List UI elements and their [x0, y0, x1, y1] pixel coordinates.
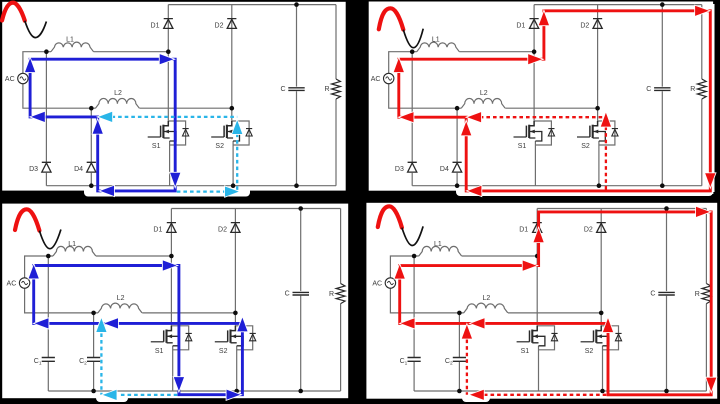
AC source [19, 278, 29, 288]
node AC-L1 junction [46, 254, 51, 259]
AC waveform icon negative half [402, 226, 423, 245]
wire cyan path halo 3 [177, 189, 225, 194]
arrow red right on AC top segment [528, 54, 542, 64]
MOSFET S2 channel bar [592, 125, 594, 138]
wire node B to S2 drain [600, 313, 602, 326]
node AC-L2 junction [89, 106, 94, 111]
svg-text:S1: S1 [155, 348, 164, 355]
arrow red left into AC corner [401, 318, 415, 328]
node S2 bottom junction [597, 183, 602, 188]
diode D2 branch wire [600, 209, 602, 313]
node B (L2/D2/S2) [595, 106, 600, 111]
MOSFET S1 body arrow [164, 130, 169, 134]
MOSFET S1 gate bar [525, 126, 527, 137]
wire S1 source to bottom rail [169, 141, 171, 186]
wire red current path loop (L1-D1-load, return via S2) [400, 212, 712, 395]
wire red dashed halo 2 [484, 392, 608, 397]
MOSFET S1 source tap [529, 132, 542, 142]
MOSFET S2 gate bar [589, 126, 591, 137]
capacitor C branch wires [296, 5, 298, 186]
wire right rail / load branch [335, 5, 337, 186]
svg-text:D3: D3 [29, 166, 38, 173]
wire L1 rail segment [46, 51, 168, 53]
wire node A to S1 drain [167, 52, 169, 121]
wire L1 rail segment [414, 255, 537, 257]
svg-text:D4: D4 [74, 166, 83, 173]
diode D1 [167, 223, 176, 233]
MOSFET S2 source tap [593, 132, 606, 142]
arrow blue right on top segment [160, 54, 174, 64]
svg-text:L1: L1 [68, 241, 76, 248]
inductor L2 [461, 98, 505, 108]
arrow blue left on bottom segment [100, 186, 114, 196]
MOSFET S2 body diode symbol [612, 129, 618, 136]
diode D4 branch wire [456, 108, 458, 186]
wire halo (top-right right edge) [706, 4, 715, 192]
arrow red up at AC [394, 58, 404, 72]
panel top-right background [369, 2, 713, 191]
MOSFET S2 gate lead [581, 341, 594, 343]
svg-text:L1: L1 [66, 37, 74, 44]
wire cyan dashed path horizontal (S2 to L2 node) [112, 116, 238, 118]
svg-text:L2: L2 [483, 295, 491, 302]
svg-text:AC: AC [371, 76, 381, 83]
wire cyan dashed path vertical (through S2) [236, 134, 238, 192]
node D4 bottom junction [455, 183, 460, 188]
arrow red dashed-head left at D4 node [467, 112, 481, 122]
MOSFET S2 body arrow [228, 130, 233, 134]
node C2 bottom junction [91, 389, 96, 394]
wire L2 rail segment [461, 107, 597, 109]
MOSFET S1 drain lead [529, 121, 534, 126]
arrow blue up at AC [25, 58, 35, 72]
inductor L1 [53, 246, 96, 256]
arrow blue up through S2 [237, 318, 247, 332]
capacitor C plates [654, 88, 670, 91]
arrow red up through D1 [534, 228, 544, 242]
wire S2 source to bottom rail [236, 346, 238, 391]
wire node B to S2 drain [597, 108, 599, 121]
inductor L2 [464, 303, 508, 313]
svg-text:AC: AC [5, 76, 15, 83]
MOSFET S1 gate bar [163, 330, 165, 341]
wire L1 rail segment [412, 51, 534, 53]
wire bottom rail [46, 185, 336, 187]
svg-text:C: C [285, 291, 290, 298]
arrow red up through D4 [461, 122, 471, 136]
arrow blue right on top segment [163, 260, 177, 270]
capacitor C1 plates [408, 358, 421, 362]
MOSFET S1 body diode symbol [551, 333, 557, 340]
MOSFET S2 gate lead [211, 136, 224, 138]
diode D3 [42, 162, 51, 172]
resistor R zigzag [702, 284, 711, 304]
arrow red right on top rail [696, 207, 710, 217]
arrow blue down through S1 [170, 173, 180, 187]
MOSFET S2 body arrow [231, 334, 236, 338]
wire blue current path loop (AC-L1-S1 return via L2) [30, 59, 175, 191]
wire right rail / load branch [701, 5, 703, 186]
arrow red dashed-head left on bottom [470, 390, 484, 400]
MOSFET S2 source tap [231, 336, 244, 346]
MOSFET S2 channel bar [226, 125, 228, 138]
arrow cyan up at C2 branch [96, 318, 106, 332]
wire S2 source to bottom rail [598, 141, 600, 186]
wire S1 source to bottom rail [172, 346, 174, 391]
diode D1 [164, 19, 173, 29]
capacitor C1 branch wires [47, 256, 49, 391]
capacitor C plates [658, 292, 675, 295]
inductor L2 [96, 98, 140, 108]
wire L1 rail segment [48, 255, 171, 257]
MOSFET S1 gate bar [529, 330, 531, 341]
AC waveform icon positive half (red) [15, 209, 39, 230]
AC waveform icon negative half [403, 29, 423, 48]
MOSFET S1 channel bar [528, 125, 530, 138]
capacitor C2 branch wires [458, 313, 460, 391]
node A (L1/D1/S1) [169, 254, 174, 259]
MOSFET S1 drain lead [163, 121, 168, 126]
wire S2 source to bottom rail [232, 141, 234, 186]
wire halo (top-left bottom edge) [84, 185, 250, 197]
arrow cyan up through S2 [232, 120, 242, 134]
node C bottom junction [298, 389, 303, 394]
wire node A to S1 drain [533, 52, 535, 121]
MOSFET S1 source tap [167, 336, 180, 346]
MOSFET S2 gate bar [593, 330, 595, 341]
MOSFET S2 body diode symbol [246, 129, 252, 136]
diode D1 [530, 19, 539, 29]
wire blue path halo [34, 266, 243, 395]
node AC-L1 junction [412, 254, 417, 259]
diode D2 [227, 19, 236, 29]
svg-text:AC: AC [372, 281, 382, 288]
wire cyan dashed path bottom segment [177, 190, 225, 192]
svg-text:D1: D1 [153, 226, 162, 233]
wire red dashed path horizontal (S2 to D4 node) [480, 116, 606, 118]
MOSFET S1 source tap [532, 336, 545, 346]
svg-text:AC: AC [7, 281, 17, 288]
MOSFET S2 gate lead [215, 341, 228, 343]
node S2 bottom junction [231, 183, 236, 188]
diode D1 branch wire [533, 5, 535, 52]
svg-text:D2: D2 [218, 226, 227, 233]
wire L2 rail segment [98, 312, 236, 314]
MOSFET S2 body arrow [593, 130, 598, 134]
AC source [385, 278, 395, 288]
capacitor C1 plates [42, 358, 55, 362]
MOSFET S2 body-diode loop [232, 121, 249, 145]
svg-text:R: R [690, 86, 695, 93]
diode D3 branch wire [45, 52, 47, 186]
node C bottom junction [294, 183, 299, 188]
arrow red down on right side [706, 378, 716, 392]
capacitor C branch wires [661, 5, 663, 186]
wire red dashed path vertical (through C2) [466, 340, 468, 395]
node C bottom junction [664, 389, 669, 394]
MOSFET S1 body-diode loop [168, 121, 185, 145]
inductor L1 [417, 42, 460, 52]
node C top junction [294, 2, 299, 7]
arrow red up at AC [395, 265, 405, 279]
arrow cyan right on bottom [225, 187, 239, 197]
MOSFET S2 channel bar [595, 330, 597, 343]
MOSFET S1 body-diode loop [171, 326, 188, 350]
svg-text:L2: L2 [480, 90, 488, 97]
wire top rail [168, 4, 336, 6]
MOSFET S2 source tap [596, 336, 609, 346]
diode D3 [408, 162, 417, 172]
svg-text:D3: D3 [395, 166, 404, 173]
wire blue current path loop (S1 and S2 conducting) [34, 266, 243, 395]
svg-text:R: R [695, 291, 700, 298]
MOSFET S1 body-diode loop [534, 121, 551, 145]
MOSFET S1 gate lead [151, 341, 164, 343]
arrow red left on mid segment [471, 318, 485, 328]
MOSFET S2 drain lead [593, 121, 598, 126]
node D4 bottom junction [89, 183, 94, 188]
MOSFET S2 body diode symbol [615, 333, 621, 340]
AC waveform icon positive half (red) [379, 8, 404, 29]
AC source [384, 73, 394, 83]
MOSFET S1 drain lead [532, 326, 537, 331]
diode D2 [593, 19, 602, 29]
svg-text:C: C [650, 291, 655, 298]
node C top junction [664, 206, 669, 211]
MOSFET S1 body diode symbol [186, 333, 192, 340]
svg-text:L1: L1 [434, 241, 442, 248]
MOSFET S1 body arrow [533, 334, 538, 338]
capacitor C plates [293, 292, 310, 295]
svg-text:D4: D4 [440, 166, 449, 173]
diode D2 branch wire [234, 209, 236, 313]
resistor R zigzag [336, 284, 345, 304]
wire node B to S2 drain [231, 108, 233, 121]
wire red current path loop (AC-L1-D1-load, return D4) [399, 11, 711, 191]
wire cyan path halo 1 [112, 114, 238, 119]
arrow red right on AC top segment [523, 261, 537, 271]
AC source [18, 73, 28, 83]
MOSFET S1 gate lead [517, 341, 530, 343]
svg-text:D1: D1 [151, 22, 160, 29]
MOSFET S2 channel bar [229, 330, 231, 343]
wire red path halo [400, 212, 712, 395]
diode D1 branch wire [167, 5, 169, 52]
inductor L1 [419, 246, 462, 256]
arrow cyan left on bottom [103, 390, 117, 400]
MOSFET S1 drain lead [167, 326, 172, 331]
wire node A to S1 drain [536, 256, 538, 326]
capacitor C2 plates [87, 358, 100, 362]
MOSFET S2 drain lead [227, 121, 232, 126]
wire red dashed halo 1 [480, 115, 606, 120]
MOSFET S2 body-diode loop [601, 326, 618, 350]
wire top rail [171, 208, 340, 210]
svg-text:S2: S2 [585, 348, 594, 355]
svg-text:L2: L2 [114, 90, 122, 97]
node C top junction [660, 2, 665, 7]
node AC-L2 junction [457, 311, 462, 316]
arrow blue left at L2 return [104, 318, 118, 328]
MOSFET S1 channel bar [162, 125, 164, 138]
arrow red left into AC corner [400, 112, 414, 122]
arrow cyan left at L2 node [98, 112, 112, 122]
MOSFET S2 gate bar [223, 126, 225, 137]
node S2 bottom junction [234, 389, 239, 394]
arrow red up through S2 [603, 318, 613, 332]
node C top junction [298, 206, 303, 211]
arrow red left on bottom rail [468, 186, 482, 196]
MOSFET S2 body-diode loop [235, 326, 252, 350]
inductor L2 [98, 303, 142, 313]
AC waveform icon positive half (red) [378, 206, 402, 227]
svg-text:R: R [329, 291, 334, 298]
wire halo (bottom-right arrow bulge) [462, 392, 490, 402]
MOSFET S2 drain lead [231, 326, 236, 331]
diode D2 [231, 223, 240, 233]
node A (L1/D1/S1) [532, 49, 537, 54]
MOSFET S2 gate lead [577, 136, 590, 138]
capacitor C2 plates [453, 358, 466, 362]
MOSFET S1 body arrow [167, 334, 172, 338]
diode D2 [597, 223, 606, 233]
svg-text:D1: D1 [516, 22, 525, 29]
wire S2 source to bottom rail [602, 346, 604, 391]
capacitor C branch wires [666, 209, 668, 392]
MOSFET S2 body-diode loop [598, 121, 615, 145]
wire cyan path halo 2 [235, 134, 240, 192]
svg-text:S2: S2 [215, 143, 224, 150]
arrow blue down through S1 [174, 377, 184, 391]
wire AC lower lead [23, 84, 96, 109]
svg-text:S1: S1 [521, 348, 530, 355]
wire S1 source to bottom rail [538, 346, 540, 391]
diode D2 branch wire [597, 5, 599, 109]
wire S1 source to bottom rail [534, 141, 536, 186]
svg-text:D2: D2 [580, 22, 589, 29]
wire red path halo [399, 11, 711, 191]
node A (L1/D1/S1) [535, 254, 540, 259]
MOSFET S2 body arrow [597, 334, 602, 338]
arrow red dashed-head up through S2 [601, 113, 611, 127]
node S2 bottom junction [600, 389, 605, 394]
wire bottom rail [412, 185, 702, 187]
wire AC upper lead [389, 52, 413, 74]
wire AC upper lead [23, 52, 47, 74]
diode D1 branch wire [536, 209, 538, 257]
MOSFET S1 body arrow [530, 130, 535, 134]
panel bottom-left background [2, 204, 348, 399]
wire AC lower lead [389, 84, 462, 109]
wire bottom rail [48, 390, 340, 392]
arrow red down on right side [705, 173, 715, 187]
wire blue path halo [30, 59, 175, 191]
wire AC lower lead [390, 288, 463, 313]
MOSFET S2 drain lead [596, 326, 601, 331]
arrow blue up at L2 return [93, 120, 103, 134]
diode D4 [87, 162, 96, 172]
diode D4 [453, 162, 462, 172]
resistor R zigzag [697, 79, 706, 99]
wire right rail / load branch [340, 209, 342, 392]
capacitor C2 branch wires [93, 313, 95, 391]
wire L2 rail segment [96, 107, 232, 109]
panel top-left background [2, 2, 346, 191]
MOSFET S1 channel bar [165, 330, 167, 343]
svg-text:D2: D2 [215, 22, 224, 29]
node AC-L2 junction [91, 311, 96, 316]
capacitor C branch wires [300, 209, 302, 392]
node B (L2/D2/S2) [230, 106, 235, 111]
svg-text:L1: L1 [432, 37, 440, 44]
node AC-L2 junction [455, 106, 460, 111]
wire node B to S2 drain [234, 313, 236, 326]
inductor L1 [51, 42, 94, 52]
arrow blue right on bottom segment [227, 390, 241, 400]
arrow blue left into AC corner [31, 112, 45, 122]
node B (L2/D2/S2) [233, 311, 238, 316]
MOSFET S2 gate bar [227, 330, 229, 341]
wire red dashed halo 1 [464, 340, 469, 395]
wire AC upper lead [390, 256, 414, 278]
diode D2 branch wire [231, 5, 233, 109]
wire AC lower lead [25, 288, 98, 313]
MOSFET S2 source tap [227, 132, 240, 142]
arrow red dashed-head up at C2 branch [462, 325, 472, 339]
node AC-L1 junction [410, 49, 415, 54]
resistor R zigzag [332, 79, 341, 99]
wire bottom rail [414, 390, 706, 392]
wire cyan path halo 2 [121, 392, 179, 397]
node A (L1/D1/S1) [166, 49, 171, 54]
wire right rail / load branch [705, 209, 707, 392]
diode D1 [533, 223, 542, 233]
panel bottom-right background [366, 203, 717, 399]
wire red dashed halo 2 [603, 127, 608, 191]
svg-text:S1: S1 [518, 143, 527, 150]
arrow red right on top rail [695, 6, 709, 16]
wire top rail [534, 4, 702, 6]
wire cyan path halo 1 [99, 333, 104, 395]
MOSFET S1 body-diode loop [537, 326, 554, 350]
AC waveform icon negative half [25, 21, 47, 38]
MOSFET S1 gate lead [514, 136, 527, 138]
node B (L2/D2/S2) [599, 311, 604, 316]
wire halo (top-right bottom edge) [456, 185, 713, 196]
MOSFET S1 channel bar [531, 330, 533, 343]
wire red dashed path vertical (through S2) [605, 127, 607, 191]
svg-text:S1: S1 [152, 143, 161, 150]
svg-text:D1: D1 [519, 226, 528, 233]
wire red dashed path bottom segment [484, 394, 608, 396]
arrow blue up at AC [29, 265, 39, 279]
MOSFET S1 source tap [163, 132, 176, 142]
AC waveform icon negative half [39, 230, 61, 249]
svg-text:C: C [280, 86, 285, 93]
wire AC upper lead [25, 256, 49, 278]
wire cyan dashed path vertical (through C2) [100, 333, 102, 395]
node C bottom junction [660, 183, 665, 188]
arrow red up through D1 [539, 12, 549, 26]
capacitor C plates [288, 88, 304, 91]
node C2 bottom junction [457, 389, 462, 394]
svg-text:S2: S2 [219, 348, 228, 355]
capacitor C1 branch wires [413, 256, 415, 391]
diode D3 branch wire [411, 52, 413, 186]
arrow blue left into AC corner [35, 318, 49, 328]
MOSFET S1 gate lead [148, 136, 161, 138]
wire halo (bottom-left arrow bulge) [96, 392, 128, 402]
